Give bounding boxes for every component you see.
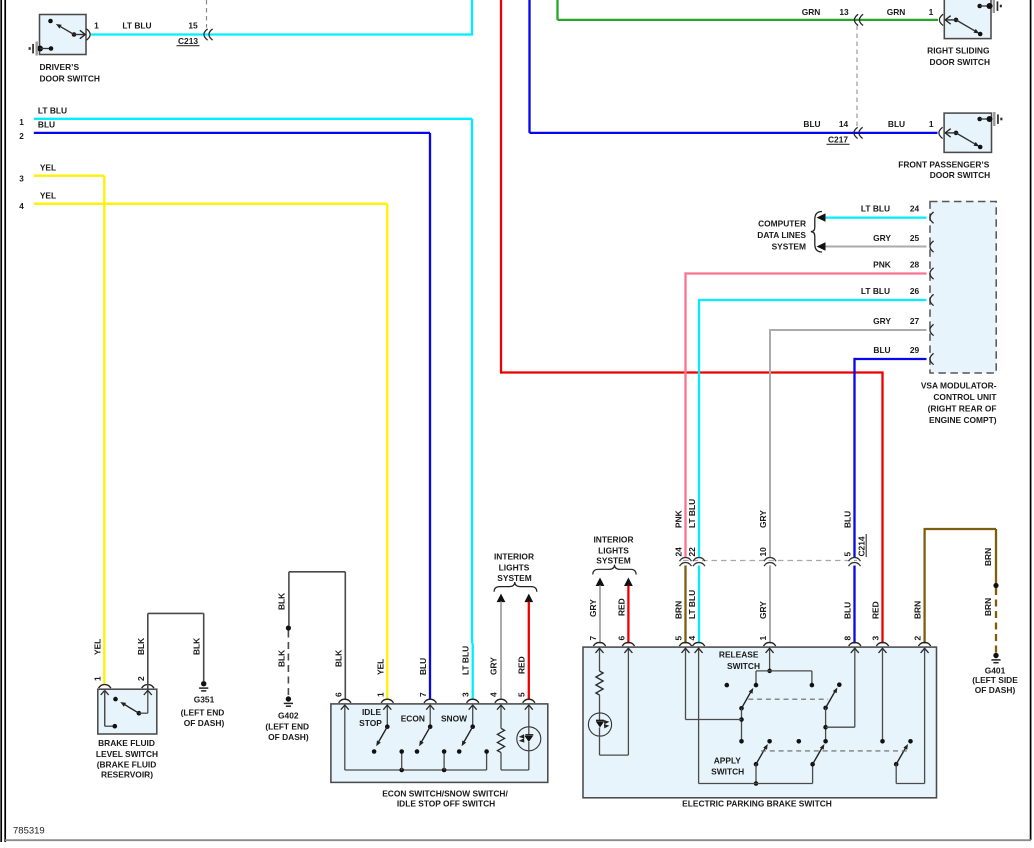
apply switch left arm bbox=[754, 744, 768, 767]
wire 3 YEL to brake fluid level switch pin 1 bbox=[34, 176, 105, 685]
svg-text:OF DASH): OF DASH) bbox=[975, 685, 1016, 695]
svg-text:BLK: BLK bbox=[276, 593, 286, 610]
svg-text:14: 14 bbox=[839, 119, 849, 129]
svg-text:1: 1 bbox=[94, 20, 99, 30]
svg-text:4: 4 bbox=[19, 202, 24, 211]
svg-text:G351: G351 bbox=[194, 695, 215, 705]
VSA pin 26 socket bbox=[930, 294, 934, 305]
arrow to computer data lines system bbox=[817, 242, 826, 250]
brake fluid level switch pin 1 arrow bbox=[104, 690, 106, 726]
parking brake switch pin 3 connector bbox=[876, 642, 888, 646]
LED indicator in ECON switch bbox=[517, 727, 541, 770]
svg-text:3: 3 bbox=[19, 175, 24, 184]
svg-text:LIGHTS: LIGHTS bbox=[598, 545, 629, 555]
svg-text:FRONT PASSENGER’S: FRONT PASSENGER’S bbox=[898, 159, 989, 169]
ground G351 bbox=[201, 681, 206, 686]
wire BLK from ECON switch pin 6 to splice bbox=[289, 572, 345, 700]
connector C214 label bbox=[857, 534, 867, 557]
wire LT BLU from VSA pin 26 to connector C214 bbox=[699, 299, 927, 558]
svg-text:ECON: ECON bbox=[401, 713, 425, 723]
wire BLK from pin 2 to G351 bbox=[148, 613, 204, 689]
svg-text:INTERIOR: INTERIOR bbox=[494, 552, 534, 562]
svg-text:VSA MODULATOR-: VSA MODULATOR- bbox=[921, 380, 997, 390]
ECON switch pin 4 arrow bbox=[500, 705, 502, 728]
svg-text:GRN: GRN bbox=[802, 7, 821, 17]
inline connector on GRN wire bbox=[854, 14, 858, 25]
svg-text:DOOR SWITCH: DOOR SWITCH bbox=[930, 170, 990, 180]
arrow up to interior lights (RED) bbox=[524, 594, 533, 603]
wire BLU from VSA pin 29 to connector C214 bbox=[855, 358, 927, 558]
label G401 bbox=[972, 666, 1018, 695]
connector socket at right sliding door switch bbox=[939, 14, 943, 25]
connector C213 dashed boundary bbox=[206, 0, 208, 28]
svg-text:3: 3 bbox=[871, 636, 881, 641]
wire GRY from VSA pin 27 to connector C214 bbox=[770, 329, 927, 558]
ECON switch pin 3 connector bbox=[467, 699, 479, 703]
connector C214 dashed line bbox=[683, 560, 857, 562]
label apply switch bbox=[711, 756, 744, 777]
wire LT BLU from C214 to parking brake switch pin 4 bbox=[698, 566, 700, 644]
svg-text:GRY: GRY bbox=[588, 599, 598, 617]
connector C217 label bbox=[827, 135, 850, 145]
svg-text:BRAKE FLUID: BRAKE FLUID bbox=[98, 738, 155, 748]
svg-text:GRY: GRY bbox=[489, 657, 499, 675]
svg-text:ENGINE COMPT): ENGINE COMPT) bbox=[929, 415, 997, 425]
ECON switch pin 7 connector bbox=[424, 699, 436, 703]
ground G402 bbox=[286, 696, 291, 701]
VSA pin 24 socket bbox=[930, 212, 934, 223]
wire BLU from C214 to parking brake switch pin 8 bbox=[853, 566, 855, 644]
svg-text:24: 24 bbox=[910, 204, 920, 214]
VSA pin 27 socket bbox=[930, 324, 934, 335]
svg-text:G401: G401 bbox=[985, 666, 1006, 676]
svg-text:28: 28 bbox=[910, 259, 920, 269]
wire BRN from parking brake switch pin 2 to G401 bbox=[924, 529, 997, 644]
apply switch right pole wiring to pin 2 bbox=[896, 764, 924, 783]
chassis ground symbol at driver's door switch bbox=[29, 42, 38, 56]
parking brake switch pin 8 arrow bbox=[854, 648, 856, 727]
svg-text:(LEFT END: (LEFT END bbox=[181, 708, 225, 718]
svg-text:GRN: GRN bbox=[887, 7, 906, 17]
VSA pin 25 socket bbox=[930, 241, 934, 252]
svg-text:YEL: YEL bbox=[375, 659, 385, 675]
right sliding door switch ground contact bbox=[977, 3, 992, 9]
svg-text:APPLY: APPLY bbox=[714, 756, 742, 766]
svg-text:DATA LINES: DATA LINES bbox=[757, 230, 806, 240]
svg-text:ELECTRIC PARKING BRAKE SWITCH: ELECTRIC PARKING BRAKE SWITCH bbox=[682, 799, 832, 809]
svg-text:(LEFT END: (LEFT END bbox=[265, 721, 309, 731]
wire BLU from top to front passenger door switch bbox=[530, 0, 938, 133]
ECON switch pin 1 arrow bbox=[386, 705, 388, 727]
svg-text:29: 29 bbox=[910, 345, 920, 355]
parking brake switch pin 4 connector bbox=[692, 642, 704, 646]
svg-text:1: 1 bbox=[375, 692, 385, 697]
release switch wiring from pin 1 bbox=[754, 669, 815, 688]
right sliding door switch contacts bbox=[945, 16, 982, 37]
svg-text:OF DASH): OF DASH) bbox=[184, 718, 225, 728]
econ switch bbox=[415, 724, 433, 753]
svg-text:2: 2 bbox=[913, 636, 923, 641]
splice dot on BRN wire bbox=[993, 583, 998, 588]
brace interior lights system (right) bbox=[593, 565, 636, 575]
svg-text:1: 1 bbox=[929, 7, 934, 17]
svg-text:IDLE: IDLE bbox=[362, 707, 381, 717]
svg-text:26: 26 bbox=[910, 286, 920, 296]
svg-text:LIGHTS: LIGHTS bbox=[499, 563, 530, 573]
svg-text:SNOW: SNOW bbox=[441, 713, 467, 723]
ECON switch pin 6 connector bbox=[339, 699, 351, 703]
wire RED from top to electric parking brake switch pin 3 bbox=[500, 0, 884, 644]
label VSA modulator-control unit bbox=[921, 380, 998, 425]
wire GRY to VSA pin 25 (computer data lines) bbox=[824, 246, 927, 248]
front passenger's door switch contacts bbox=[945, 129, 982, 150]
wire RED to ECON switch pin 5 bbox=[528, 602, 530, 700]
brace for computer data lines system bbox=[811, 212, 822, 253]
svg-text:LT BLU: LT BLU bbox=[861, 286, 890, 296]
svg-text:BRN: BRN bbox=[983, 598, 993, 616]
svg-text:IDLE STOP OFF SWITCH: IDLE STOP OFF SWITCH bbox=[397, 799, 495, 809]
svg-text:YEL: YEL bbox=[92, 639, 102, 655]
svg-text:BLK: BLK bbox=[333, 650, 343, 667]
arrow up to interior lights (RED) bbox=[624, 578, 633, 587]
svg-text:24: 24 bbox=[674, 547, 684, 557]
svg-text:3: 3 bbox=[461, 692, 471, 697]
ECON switch common bus wiring bbox=[345, 749, 489, 772]
svg-text:BRN: BRN bbox=[913, 601, 923, 619]
release switch right arm bbox=[823, 688, 837, 711]
connector C213 inline symbol bbox=[204, 29, 208, 40]
resistor in parking brake switch bbox=[596, 671, 603, 695]
parking brake switch pin 5 connector bbox=[679, 642, 691, 646]
apply switch middle arm bbox=[810, 744, 824, 767]
svg-text:RIGHT SLIDING: RIGHT SLIDING bbox=[927, 46, 989, 56]
svg-text:5: 5 bbox=[516, 692, 526, 697]
parking brake switch pin 5 arrow bbox=[685, 648, 687, 719]
svg-text:BLU: BLU bbox=[873, 345, 890, 355]
parking brake switch pin 1 connector bbox=[763, 642, 775, 646]
front passenger's door switch box bbox=[944, 113, 991, 152]
svg-text:GRY: GRY bbox=[873, 233, 891, 243]
svg-text:6: 6 bbox=[616, 636, 626, 641]
svg-text:RESERVOIR): RESERVOIR) bbox=[101, 770, 153, 780]
brake fluid level switch box bbox=[98, 689, 157, 734]
driver's door switch contacts bbox=[48, 19, 85, 39]
ECON switch pin 3 arrow bbox=[472, 705, 474, 727]
label right sliding door switch bbox=[927, 46, 990, 67]
svg-text:YEL: YEL bbox=[40, 162, 56, 172]
svg-text:SWITCH: SWITCH bbox=[727, 661, 760, 671]
apply switch contact dots bbox=[767, 739, 913, 744]
svg-text:LT BLU: LT BLU bbox=[687, 499, 697, 528]
wire LT BLU to VSA pin 24 (computer data lines) bbox=[824, 216, 927, 218]
svg-text:1: 1 bbox=[19, 118, 24, 127]
parking brake switch pin 2 connector bbox=[918, 642, 930, 646]
svg-text:STOP: STOP bbox=[359, 718, 382, 728]
resistor in ECON switch bbox=[497, 728, 504, 752]
svg-text:(BRAKE FLUID: (BRAKE FLUID bbox=[97, 760, 157, 770]
connector C214 pin 24 symbol bbox=[680, 558, 692, 562]
svg-text:BLU: BLU bbox=[843, 511, 853, 528]
svg-text:785319: 785319 bbox=[13, 826, 45, 837]
svg-text:LT BLU: LT BLU bbox=[687, 590, 697, 619]
svg-text:BRN: BRN bbox=[674, 601, 684, 619]
svg-text:15: 15 bbox=[188, 20, 198, 30]
svg-text:ECON SWITCH/SNOW SWITCH/: ECON SWITCH/SNOW SWITCH/ bbox=[382, 788, 508, 798]
arrow up to interior lights (GRY) bbox=[596, 578, 605, 587]
svg-text:LT BLU: LT BLU bbox=[122, 20, 151, 30]
ECON switch pin 7 arrow bbox=[429, 705, 431, 727]
dashed BLK wire to G402 bbox=[287, 631, 289, 697]
ECON switch pin 1 connector bbox=[381, 699, 393, 703]
svg-text:LT BLU: LT BLU bbox=[38, 106, 67, 116]
connector socket at front passenger door switch bbox=[939, 127, 943, 138]
brake fluid level switch contacts bbox=[105, 689, 148, 728]
wire RED to parking brake switch pin 6 bbox=[627, 586, 629, 644]
brake fluid level switch pin 2 arrow bbox=[147, 690, 149, 713]
label driver's door switch bbox=[40, 62, 100, 84]
connector C214 pin 22 symbol bbox=[693, 558, 705, 562]
wire from resistor to LED bbox=[599, 695, 601, 713]
svg-text:BLU: BLU bbox=[418, 658, 428, 675]
front passenger's door switch ground contact bbox=[977, 116, 992, 122]
arrow to computer data lines system bbox=[817, 213, 826, 221]
wire LT BLU from driver door switch to top (via C213) bbox=[91, 0, 472, 36]
label release switch bbox=[719, 650, 760, 671]
page border left (double line) bbox=[1, 0, 5, 842]
label brake fluid level switch bbox=[96, 738, 158, 779]
svg-text:RED: RED bbox=[616, 598, 626, 616]
svg-text:5: 5 bbox=[843, 552, 853, 557]
wire GRY to ECON switch pin 4 bbox=[500, 602, 502, 700]
ground G401 bbox=[993, 653, 998, 658]
apply switch right arm bbox=[894, 744, 908, 767]
label front passenger's door switch bbox=[898, 159, 990, 180]
svg-text:1: 1 bbox=[758, 636, 768, 641]
VSA modulator-control unit box bbox=[930, 202, 996, 374]
svg-text:BLK: BLK bbox=[192, 638, 202, 655]
label G351 bbox=[181, 695, 225, 729]
svg-text:1: 1 bbox=[92, 676, 102, 681]
svg-text:4: 4 bbox=[687, 636, 697, 641]
parking brake switch pin 6 arrow bbox=[627, 648, 629, 755]
svg-text:BRN: BRN bbox=[983, 548, 993, 566]
svg-text:BLU: BLU bbox=[843, 602, 853, 619]
svg-text:22: 22 bbox=[687, 547, 697, 557]
svg-text:BLK: BLK bbox=[136, 638, 146, 655]
brace interior lights system (left) bbox=[494, 582, 537, 592]
svg-text:6: 6 bbox=[333, 692, 343, 697]
svg-text:YEL: YEL bbox=[40, 190, 56, 200]
ECON switch pin 5 connector bbox=[523, 699, 535, 703]
svg-text:RED: RED bbox=[871, 601, 881, 619]
svg-text:LEVEL SWITCH: LEVEL SWITCH bbox=[96, 749, 158, 759]
svg-text:GRY: GRY bbox=[758, 510, 768, 528]
parking brake switch pin 6 connector bbox=[622, 642, 634, 646]
svg-text:(LEFT SIDE: (LEFT SIDE bbox=[972, 675, 1018, 685]
svg-text:BLU: BLU bbox=[38, 120, 55, 130]
svg-text:2: 2 bbox=[136, 676, 146, 681]
driver's door switch ground contact bbox=[37, 46, 53, 52]
wire PNK from VSA pin 28 to connector C214 bbox=[686, 272, 927, 558]
wire GRY to parking brake switch pin 7 bbox=[599, 586, 601, 644]
svg-text:DOOR SWITCH: DOOR SWITCH bbox=[40, 74, 100, 84]
release switch right pole wiring to pin 8 bbox=[823, 708, 855, 744]
ECON switch pin 6 arrow bbox=[344, 705, 346, 770]
release switch open contact dot bbox=[725, 683, 730, 688]
svg-text:OF DASH): OF DASH) bbox=[268, 732, 309, 742]
wire from resistor to bus bbox=[501, 753, 529, 770]
label idle stop bbox=[359, 707, 382, 728]
svg-text:SWITCH: SWITCH bbox=[711, 766, 744, 776]
svg-text:(RIGHT REAR OF: (RIGHT REAR OF bbox=[928, 403, 997, 413]
ECON-SNOW-IDLE STOP switch box bbox=[331, 704, 548, 783]
ECON switch pin 5 arrow bbox=[528, 705, 530, 727]
page border right bbox=[1030, 0, 1032, 840]
svg-text:8: 8 bbox=[843, 636, 853, 641]
label ECON switch box bbox=[382, 788, 508, 808]
svg-text:RELEASE: RELEASE bbox=[719, 650, 759, 660]
svg-text:SYSTEM: SYSTEM bbox=[596, 555, 630, 565]
parking brake switch pin 8 connector bbox=[849, 642, 861, 646]
dashed connector boundary between GRN and BLU connectors bbox=[856, 26, 858, 128]
svg-text:LT BLU: LT BLU bbox=[861, 204, 890, 214]
label computer data lines system bbox=[757, 219, 806, 252]
brake fluid level switch pin 1 connector bbox=[99, 685, 111, 689]
svg-text:GRY: GRY bbox=[758, 601, 768, 619]
svg-text:DOOR SWITCH: DOOR SWITCH bbox=[930, 57, 990, 67]
wire GRY from C214 to parking brake switch pin 1 bbox=[769, 566, 771, 644]
svg-text:27: 27 bbox=[910, 316, 920, 326]
release switch linkage (dashed) bbox=[748, 698, 828, 700]
parking brake switch pin 7 connector bbox=[593, 642, 605, 646]
electric parking brake switch box bbox=[583, 647, 937, 798]
apply switch linkage (dashed) bbox=[761, 750, 907, 752]
svg-text:SYSTEM: SYSTEM bbox=[497, 573, 531, 583]
arrow up to interior lights (GRY) bbox=[497, 594, 506, 603]
wire 4 YEL to ECON switch pin 1 bbox=[34, 204, 388, 700]
wire GRN from top to right sliding door switch bbox=[558, 0, 939, 20]
page border bottom bbox=[5, 839, 1031, 841]
svg-text:GRY: GRY bbox=[873, 316, 891, 326]
parking brake switch pin 4 arrow bbox=[698, 648, 700, 783]
svg-text:25: 25 bbox=[910, 233, 920, 243]
svg-text:CONTROL UNIT: CONTROL UNIT bbox=[933, 392, 997, 402]
svg-text:COMPUTER: COMPUTER bbox=[758, 219, 806, 229]
svg-text:4: 4 bbox=[489, 692, 499, 697]
svg-text:C213: C213 bbox=[178, 36, 198, 46]
label interior lights system (right) bbox=[593, 534, 633, 565]
ECON switch pin 4 connector bbox=[495, 699, 507, 703]
svg-text:PNK: PNK bbox=[873, 259, 891, 269]
svg-text:DRIVER’S: DRIVER’S bbox=[40, 62, 80, 72]
svg-text:SYSTEM: SYSTEM bbox=[772, 241, 806, 251]
svg-text:BLK: BLK bbox=[276, 650, 286, 667]
parking brake switch pin 3 arrow bbox=[882, 648, 884, 741]
parking brake switch pin 2 arrow bbox=[924, 648, 926, 783]
parking brake switch pin 1 arrow bbox=[769, 648, 771, 671]
connector C217 inline symbol bbox=[854, 127, 858, 138]
snow switch bbox=[457, 724, 475, 753]
svg-text:G402: G402 bbox=[278, 710, 299, 720]
svg-text:5: 5 bbox=[674, 636, 684, 641]
wire BRN from C214 to parking brake switch pin 5 bbox=[684, 566, 686, 644]
release switch left arm bbox=[739, 688, 753, 711]
label G402 bbox=[265, 710, 309, 742]
svg-text:1: 1 bbox=[929, 119, 934, 129]
svg-text:LT BLU: LT BLU bbox=[461, 646, 471, 675]
svg-text:2: 2 bbox=[19, 132, 24, 141]
svg-text:RED: RED bbox=[516, 656, 526, 674]
svg-text:10: 10 bbox=[758, 547, 768, 557]
wire 2 BLU to ECON switch pin 7 bbox=[34, 133, 430, 700]
VSA pin 29 socket bbox=[930, 353, 934, 364]
svg-text:INTERIOR: INTERIOR bbox=[593, 534, 633, 544]
wire from LED to pin 6 bbox=[600, 736, 629, 755]
parking brake switch pin 7 arrow bbox=[599, 648, 601, 671]
splice dot on BLK wire bbox=[286, 625, 291, 630]
svg-text:BLU: BLU bbox=[803, 119, 820, 129]
apply switch left pole wiring bbox=[699, 764, 813, 786]
release switch left pole wiring bbox=[686, 708, 744, 743]
svg-text:C214: C214 bbox=[857, 536, 867, 556]
label interior lights system (left) bbox=[494, 552, 534, 583]
LED indicator in parking brake switch bbox=[588, 713, 611, 736]
connector socket at driver's door switch pin 1 bbox=[87, 29, 91, 40]
svg-text:7: 7 bbox=[418, 692, 428, 697]
release switch right contact bbox=[837, 682, 842, 687]
svg-text:PNK: PNK bbox=[674, 510, 684, 528]
idle stop switch bbox=[372, 724, 390, 753]
connector C214 pin 10 symbol bbox=[764, 558, 776, 562]
brake fluid level switch pin 2 connector bbox=[142, 685, 154, 689]
driver's door switch box bbox=[40, 15, 87, 55]
svg-text:C217: C217 bbox=[828, 135, 848, 145]
chassis ground symbol at right sliding door switch bbox=[993, 0, 1002, 13]
svg-text:BLU: BLU bbox=[888, 119, 905, 129]
connector C213 label bbox=[177, 36, 200, 46]
chassis ground symbol at front passenger's door switch bbox=[993, 112, 1002, 126]
svg-text:7: 7 bbox=[588, 636, 598, 641]
wire 1 LT BLU to ECON switch pin 3 bbox=[34, 119, 473, 700]
right sliding door switch box bbox=[944, 0, 991, 39]
dashed BRN wire to G401 bbox=[995, 588, 997, 653]
svg-text:13: 13 bbox=[839, 7, 849, 17]
VSA pin 28 socket bbox=[930, 268, 934, 279]
connector C214 pin 5 symbol bbox=[849, 558, 861, 562]
